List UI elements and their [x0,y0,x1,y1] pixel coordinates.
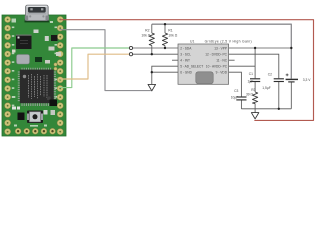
svg-text:R2: R2 [145,28,149,32]
svg-text:3 - SCL: 3 - SCL [180,53,191,57]
wire orange SCL from Teensy [60,54,129,79]
battery BT1 [286,74,298,82]
svg-text:U1: U1 [190,39,194,43]
svg-text:2 - SDA: 2 - SDA [180,46,192,50]
svg-text:11 - NC: 11 - NC [216,59,227,63]
svg-text:13 - VPP: 13 - VPP [214,46,227,50]
svg-text:C3: C3 [234,89,238,93]
svg-text:C1: C1 [249,72,253,76]
wire AD_SELECT to ground [152,66,178,84]
svg-text:1,5µF: 1,5µF [262,86,271,90]
ground symbol right [251,113,258,119]
bottom pad row [15,128,55,134]
svg-text:10 - AVDD- PC: 10 - AVDD- PC [206,65,228,69]
wire green SDA from Teensy [60,48,129,88]
black component left of button [18,113,25,121]
smd parts [12,30,61,64]
wire DVDD to C2 [229,54,279,78]
capacitor C2 [274,79,284,82]
Teensy 3.2 board [2,5,66,136]
svg-text:39 Ω: 39 Ω [246,92,254,96]
svg-text:3,3 V: 3,3 V [303,78,311,82]
svg-text:10µF: 10µF [231,95,239,99]
wire SDA net [133,47,178,49]
small chip top right [51,35,58,41]
resistor R2 [149,33,154,46]
node SCL connector circle [129,53,132,56]
svg-text:R1: R1 [168,28,172,32]
black chip right of mcu bottom [50,100,58,107]
wire gray GND from Teensy to schematic ground [60,30,150,91]
inner pads [54,63,57,71]
node SDA connector circle [129,46,132,49]
svg-text:1µF: 1µF [248,79,254,83]
wire C2 bottom [278,82,280,109]
wire red V+ from Teensy around to ground rail [60,20,314,121]
bootloader chip [16,35,32,50]
wire battery bottom [290,82,292,109]
wire C3 bottom [240,100,242,109]
silkscreen bits [12,107,20,110]
crystal [17,55,30,65]
svg-text:6 - GND: 6 - GND [180,71,192,75]
wire R2 leads [151,24,153,33]
wire GND pin [152,71,178,73]
wire R1 leads [164,24,166,33]
wire AVDD to C1 column [229,65,256,67]
silkscreen pin label dots [12,19,58,127]
junction dots [151,23,293,110]
svg-text:10k Ω: 10k Ω [141,33,150,37]
MCU MK20 [18,68,56,106]
usb connector [25,5,50,22]
wire SCL net [133,53,178,55]
wire R3 bottom lead to ground [254,104,256,113]
svg-text:4 - INT: 4 - INT [180,59,190,63]
svg-text:GridEye (2,5 V High Gain): GridEye (2,5 V High Gain) [205,39,252,43]
resistor R3 [253,92,258,104]
svg-text:C2: C2 [268,72,272,76]
capacitor C1 [250,79,260,82]
wire gray top rail to battery [152,24,291,78]
small parts near button [44,110,48,115]
capacitor C3 [236,97,246,100]
ground symbol left [148,84,156,91]
svg-text:5 - AD_SELECT: 5 - AD_SELECT [180,65,203,69]
wire bottom rail [241,108,291,110]
svg-text:10k Ω: 10k Ω [168,33,177,37]
svg-text:12 - DVDD- PC: 12 - DVDD- PC [205,53,227,57]
pin 4 INT stub [172,59,178,61]
left pad column [5,16,11,134]
pin 11 NC stub [229,59,235,61]
wire VDD to C3 [229,72,242,97]
labels [141,28,251,43]
IC U1 GridEye [178,44,229,84]
wire VPP to battery [229,47,292,49]
svg-text:9 - VDD: 9 - VDD [216,71,228,75]
push button [27,111,43,124]
right pad column [57,16,63,134]
wire C1 column vertical [254,48,256,78]
resistor R1 [162,33,167,46]
